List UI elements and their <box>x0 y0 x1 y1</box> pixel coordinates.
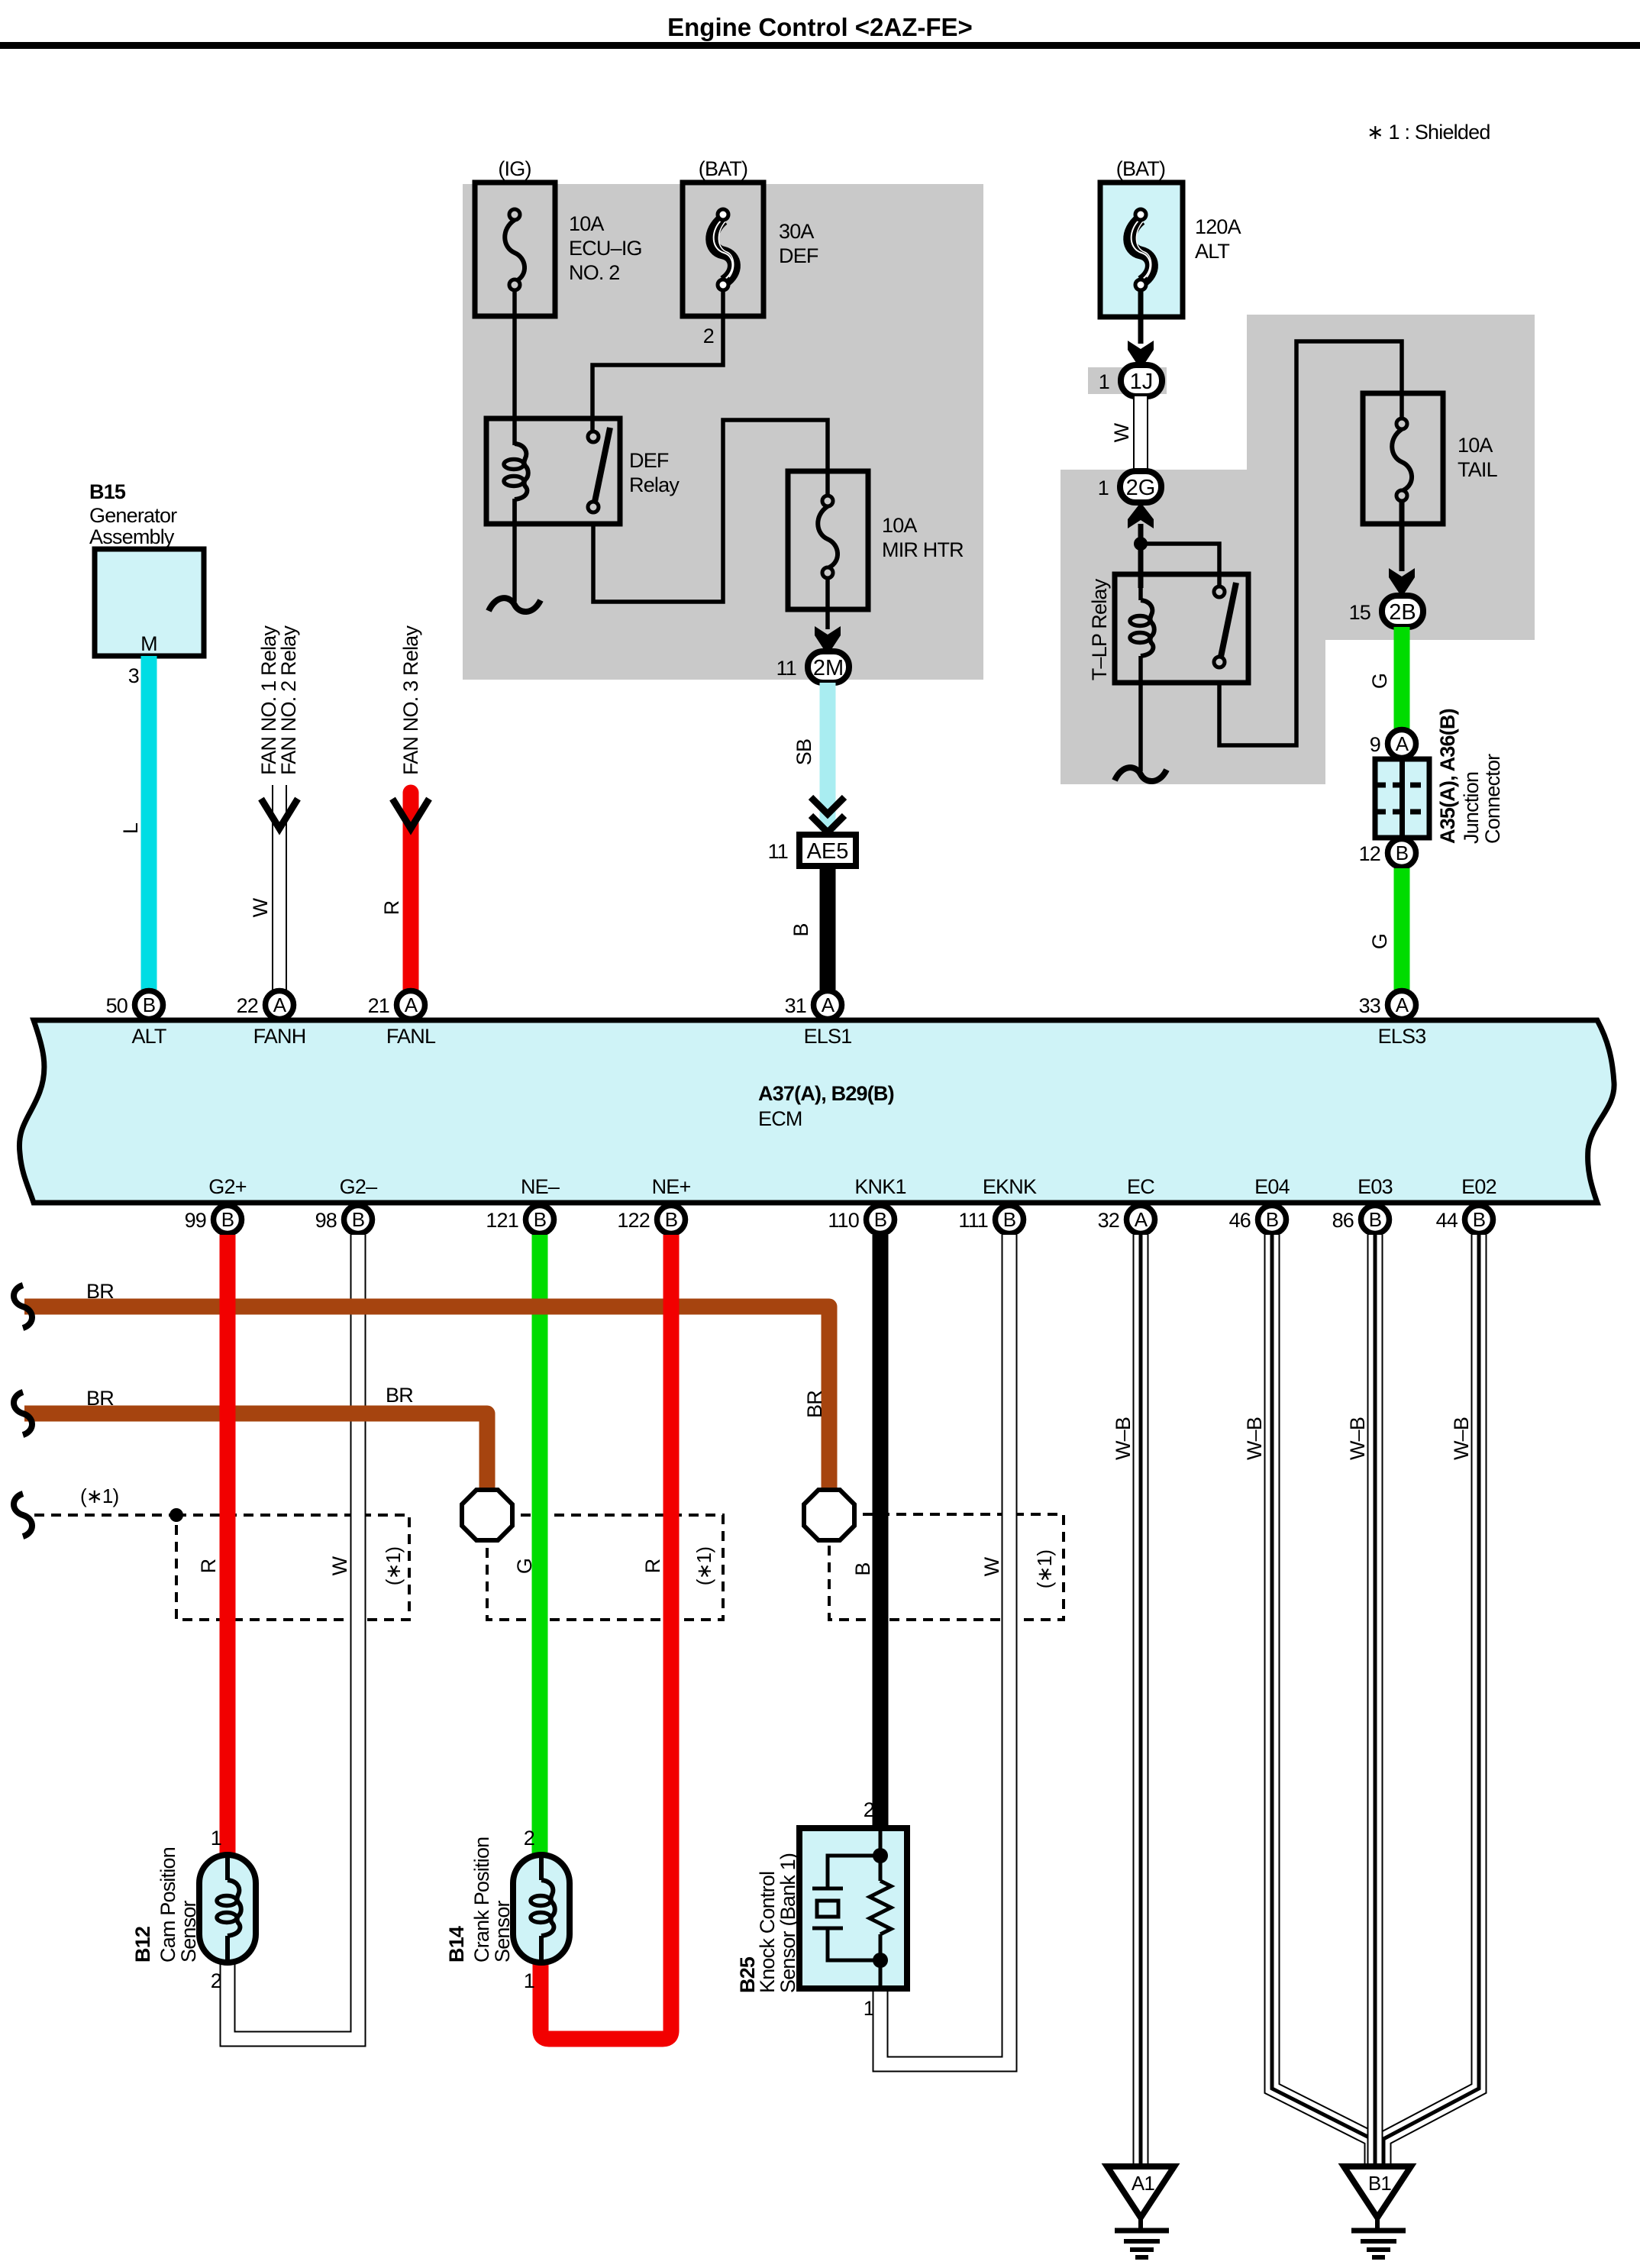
ECM pin 121 B <box>526 1206 554 1234</box>
svg-text:33: 33 <box>1359 994 1380 1017</box>
svg-text:B: B <box>789 923 812 936</box>
wire W-B from E04 to ground B1 <box>1272 1235 1372 2166</box>
svg-text:E04: E04 <box>1254 1175 1290 1198</box>
svg-text:A: A <box>273 993 287 1016</box>
fuse ECU-IG NO.2 element <box>505 209 525 290</box>
svg-text:B: B <box>1473 1208 1486 1231</box>
svg-text:B: B <box>665 1208 678 1231</box>
svg-text:W–B: W–B <box>1450 1417 1473 1460</box>
svg-text:EKNK: EKNK <box>983 1175 1037 1198</box>
svg-text:Assembly: Assembly <box>89 525 175 548</box>
svg-text:A: A <box>822 993 835 1016</box>
wire TAIL fuse down <box>1399 501 1405 571</box>
cam position sensor B12 body <box>199 1855 256 1963</box>
svg-text:B: B <box>851 1562 874 1575</box>
arrow into 2B <box>1389 568 1415 597</box>
svg-text:31: 31 <box>785 994 806 1017</box>
ECM pin 22 A <box>266 991 294 1019</box>
svg-text:1J: 1J <box>1130 370 1154 394</box>
svg-text:111: 111 <box>958 1209 988 1232</box>
ground A1 <box>1107 2166 1174 2257</box>
B15 Generator Assembly box <box>95 549 204 656</box>
svg-text:KNK1: KNK1 <box>854 1175 906 1198</box>
svg-text:121: 121 <box>486 1209 518 1232</box>
wire DEF relay switch to MIR HTR fuse <box>593 420 828 602</box>
wire DEF fuse to DEF relay switch <box>592 290 723 437</box>
wire KNK1 black to knock sensor <box>873 1235 889 1828</box>
wire BR shield drain (cam/crank pair) <box>24 1413 487 1490</box>
svg-text:SB: SB <box>793 739 815 765</box>
connector 2M <box>808 651 849 683</box>
svg-text:1: 1 <box>211 1827 221 1850</box>
svg-text:B: B <box>143 993 156 1016</box>
svg-text:A: A <box>1396 993 1409 1016</box>
svg-text:Junction: Junction <box>1460 772 1483 844</box>
svg-text:B: B <box>1369 1208 1382 1231</box>
ECM pin 21 A <box>397 991 425 1019</box>
svg-text:(IG): (IG) <box>498 157 531 180</box>
ECM pin 99 B <box>214 1206 242 1234</box>
svg-text:B: B <box>1003 1208 1016 1231</box>
fuse MIR HTR element <box>818 496 838 578</box>
ECM band A37(A) B29(B) <box>19 1020 1614 1203</box>
wire B from AE5 to ECM pin 31 <box>820 866 836 990</box>
svg-text:2: 2 <box>864 1798 874 1821</box>
title rule <box>0 42 1640 49</box>
wire IG fuse to DEF relay coil <box>512 290 517 445</box>
ground squiggle below DEF relay <box>489 598 541 612</box>
svg-text:W: W <box>328 1556 351 1575</box>
svg-text:T–LP Relay: T–LP Relay <box>1088 578 1111 680</box>
wire W to FANH <box>272 785 287 990</box>
svg-text:E02: E02 <box>1461 1175 1496 1198</box>
svg-text:∗ 1 : Shielded: ∗ 1 : Shielded <box>1367 121 1490 144</box>
wire W from 1J to 2G <box>1133 396 1148 471</box>
svg-text:(∗1): (∗1) <box>382 1547 405 1586</box>
svg-text:BR: BR <box>803 1391 826 1418</box>
svg-text:B: B <box>221 1208 234 1231</box>
pin 12 B of junction connector <box>1388 839 1416 867</box>
svg-text:NE+: NE+ <box>652 1175 691 1198</box>
svg-text:R: R <box>380 900 403 915</box>
ECM pin 44 B <box>1465 1206 1493 1234</box>
wire T-LP switch to TAIL fuse <box>1219 341 1402 745</box>
svg-text:21: 21 <box>368 994 389 1017</box>
svg-text:B14: B14 <box>445 1926 468 1963</box>
svg-text:A1: A1 <box>1132 2172 1155 2195</box>
wire MIR HTR fuse to 2M <box>825 578 830 629</box>
gray panel (T-LP relay / TAIL fuse block) <box>1061 315 1535 784</box>
ECM pin 50 B <box>135 991 163 1019</box>
connector 2B <box>1382 596 1423 627</box>
svg-text:Crank Position: Crank Position <box>470 1837 493 1963</box>
DEF relay coil <box>504 444 528 524</box>
crank position sensor B14 body <box>513 1855 570 1963</box>
svg-text:FAN NO. 2 Relay: FAN NO. 2 Relay <box>277 625 300 775</box>
svg-text:44: 44 <box>1436 1209 1458 1232</box>
svg-text:W–B: W–B <box>1243 1417 1266 1460</box>
shield dashed box cam sensor <box>176 1515 409 1620</box>
svg-text:A: A <box>1135 1208 1148 1231</box>
svg-text:98: 98 <box>315 1209 337 1232</box>
wire G2- white loop to cam sensor <box>228 1235 358 2039</box>
knock sensor internal circuit <box>812 1828 891 1989</box>
wire DEF relay coil to ground squiggle <box>512 499 517 602</box>
svg-text:BR: BR <box>86 1280 114 1303</box>
ground squiggle below T-LP relay <box>1115 767 1167 781</box>
ECM pin 111 B <box>996 1206 1024 1234</box>
svg-text:2B: 2B <box>1389 600 1416 625</box>
svg-text:A: A <box>1396 732 1409 755</box>
svg-text:1: 1 <box>864 1997 874 2020</box>
svg-text:W–B: W–B <box>1112 1417 1135 1460</box>
ECM pin 32 A <box>1127 1206 1155 1234</box>
svg-text:ELS1: ELS1 <box>804 1025 852 1048</box>
svg-text:B: B <box>1266 1208 1279 1231</box>
svg-text:Knock Control: Knock Control <box>756 1872 779 1993</box>
svg-text:G: G <box>1368 674 1391 689</box>
svg-text:50: 50 <box>106 994 128 1017</box>
svg-text:FAN NO. 3 Relay: FAN NO. 3 Relay <box>399 625 422 775</box>
svg-text:Sensor (Bank 1): Sensor (Bank 1) <box>776 1853 799 1993</box>
fuse MIR HTR box <box>788 471 868 609</box>
svg-text:Generator: Generator <box>89 504 177 527</box>
svg-text:86: 86 <box>1332 1209 1354 1232</box>
wire SB from 2M to AE5 <box>820 683 836 831</box>
svg-text:15: 15 <box>1349 601 1370 624</box>
svg-text:BR: BR <box>386 1384 413 1407</box>
svg-text:1: 1 <box>524 1969 534 1992</box>
shield octagon (knock) <box>804 1490 854 1540</box>
connector 1J <box>1121 365 1162 396</box>
gray panel (DEF relay / fuse block) <box>463 184 983 680</box>
shield dashed box knock sensor <box>829 1514 1064 1620</box>
svg-text:12: 12 <box>1359 842 1380 865</box>
wire W-B from E03 to ground B1 <box>1367 1235 1383 2166</box>
svg-text:46: 46 <box>1229 1209 1251 1232</box>
fuse TAIL element <box>1392 418 1412 501</box>
arrow up out of 2G <box>1128 502 1154 528</box>
svg-text:122: 122 <box>617 1209 650 1232</box>
svg-text:1: 1 <box>1098 477 1109 499</box>
svg-text:Cam Position: Cam Position <box>157 1847 179 1963</box>
svg-text:11: 11 <box>776 657 796 680</box>
T-LP relay coil <box>1130 600 1154 656</box>
svg-text:10A: 10A <box>569 212 604 235</box>
svg-text:(∗1): (∗1) <box>1033 1550 1056 1589</box>
chevron arrow on FANH wire <box>261 799 298 829</box>
svg-text:99: 99 <box>185 1209 206 1232</box>
wire junction to T-LP switch <box>1141 544 1219 592</box>
svg-text:AE5: AE5 <box>807 839 849 864</box>
svg-text:10A: 10A <box>1458 434 1493 457</box>
svg-text:2M: 2M <box>813 656 844 680</box>
T-LP relay box <box>1115 574 1248 683</box>
junction connector A35/A36 box <box>1375 759 1429 838</box>
svg-text:B12: B12 <box>131 1927 154 1963</box>
svg-text:30A: 30A <box>779 220 814 243</box>
svg-text:R: R <box>197 1559 220 1573</box>
svg-text:3: 3 <box>128 664 139 687</box>
wire EKNK white loop to knock sensor <box>880 1235 1009 2064</box>
svg-text:W: W <box>249 897 272 917</box>
cam sensor pickup coil <box>217 1857 241 1960</box>
svg-text:22: 22 <box>237 994 258 1017</box>
svg-text:W: W <box>980 1556 1003 1576</box>
shield dashed line (*1) <box>34 1514 176 1517</box>
wire ALT fuse down <box>1138 290 1144 344</box>
svg-text:W–B: W–B <box>1346 1417 1369 1460</box>
shield octagon (crank) <box>462 1490 512 1540</box>
svg-text:MIR HTR: MIR HTR <box>882 538 964 561</box>
knock control sensor B25 body <box>799 1828 907 1989</box>
svg-text:W: W <box>1110 422 1133 442</box>
svg-text:E03: E03 <box>1358 1175 1393 1198</box>
svg-text:G2–: G2– <box>340 1175 377 1198</box>
svg-text:Connector: Connector <box>1481 754 1504 844</box>
connector AE5 <box>799 835 856 866</box>
svg-text:TAIL: TAIL <box>1458 458 1498 481</box>
wire 2G to T-LP relay coil <box>1138 524 1144 588</box>
svg-text:110: 110 <box>828 1209 859 1232</box>
ECM pin 31 A <box>814 991 842 1019</box>
svg-text:G2+: G2+ <box>208 1175 246 1198</box>
DEF relay switch <box>588 428 610 512</box>
svg-text:ELS3: ELS3 <box>1378 1025 1426 1048</box>
svg-text:2: 2 <box>524 1827 534 1850</box>
svg-text:B: B <box>874 1208 887 1231</box>
svg-text:(BAT): (BAT) <box>699 157 748 180</box>
squiggle break on BR second wire <box>14 1392 32 1435</box>
svg-text:(∗1): (∗1) <box>80 1485 119 1507</box>
wire W-B from E02 to ground B1 <box>1383 1235 1479 2166</box>
svg-text:ECM: ECM <box>758 1107 802 1130</box>
wire R to FANL <box>403 793 419 990</box>
chevron arrow on FANL wire <box>392 799 429 829</box>
wire NE- green to crank sensor <box>532 1235 548 1855</box>
arrow into 1J <box>1128 341 1154 370</box>
junction dot <box>1134 537 1148 551</box>
svg-text:ALT: ALT <box>1195 240 1229 263</box>
svg-text:B: B <box>352 1208 365 1231</box>
svg-text:FANH: FANH <box>253 1025 306 1048</box>
svg-text:NO. 2: NO. 2 <box>569 261 620 284</box>
wire G from 2B to junction connector <box>1394 627 1410 729</box>
svg-text:R: R <box>641 1559 664 1573</box>
fuse ALT 120A box <box>1100 183 1183 317</box>
svg-text:(BAT): (BAT) <box>1116 157 1166 180</box>
svg-text:DEF: DEF <box>779 244 818 267</box>
wire L from generator to ECM pin 50 <box>141 656 157 990</box>
svg-text:G: G <box>1368 934 1391 949</box>
fuse DEF element (30A thick) <box>712 209 734 290</box>
wire G from junction connector to ECM pin 33 <box>1394 868 1410 990</box>
svg-text:B1: B1 <box>1368 2172 1392 2195</box>
ECM pin 122 B <box>657 1206 686 1234</box>
svg-text:ECU–IG: ECU–IG <box>569 237 642 260</box>
wire G2+ red to cam sensor <box>220 1235 236 1855</box>
svg-text:BR: BR <box>86 1387 114 1410</box>
svg-text:10A: 10A <box>882 514 917 537</box>
ECM pin 110 B <box>867 1206 895 1234</box>
ECM pin 86 B <box>1361 1206 1390 1234</box>
svg-text:32: 32 <box>1098 1209 1119 1232</box>
svg-text:2G: 2G <box>1126 476 1156 500</box>
svg-text:9: 9 <box>1370 733 1380 756</box>
wire T-LP coil to ground squiggle <box>1138 683 1143 771</box>
ECM pin 46 B <box>1258 1206 1286 1234</box>
svg-text:1: 1 <box>1099 370 1109 393</box>
pin 9 A of junction connector <box>1388 730 1416 758</box>
squiggle break on BR top wire <box>14 1285 32 1328</box>
svg-text:B15: B15 <box>89 480 126 503</box>
T-LP relay switch <box>1214 583 1236 667</box>
ECM pin 98 B <box>344 1206 373 1234</box>
ground B1 <box>1344 2166 1411 2257</box>
svg-text:DEF: DEF <box>629 449 669 472</box>
svg-text:2: 2 <box>211 1969 221 1992</box>
svg-text:M: M <box>140 632 157 655</box>
svg-text:Engine Control <2AZ-FE>: Engine Control <2AZ-FE> <box>667 13 973 41</box>
arrow into 2M <box>815 626 841 655</box>
crank sensor pickup coil <box>531 1857 555 1960</box>
DEF relay box <box>486 418 620 524</box>
double chevron arrow into AE5 <box>811 797 844 832</box>
svg-text:L: L <box>119 822 142 834</box>
junction dot on shield line <box>169 1508 183 1522</box>
ECM pin 33 A <box>1388 991 1416 1019</box>
svg-text:2: 2 <box>703 325 714 347</box>
svg-text:A37(A), B29(B): A37(A), B29(B) <box>758 1082 894 1105</box>
svg-text:B: B <box>534 1208 547 1231</box>
svg-text:Relay: Relay <box>629 473 680 496</box>
svg-text:EC: EC <box>1127 1175 1154 1198</box>
wire W-B from EC to ground A1 <box>1133 1235 1149 2166</box>
svg-text:120A: 120A <box>1195 215 1241 238</box>
connector 2G <box>1120 471 1161 502</box>
squiggle break on shield line <box>14 1494 32 1536</box>
gray band behind 1J connector <box>1088 367 1167 394</box>
svg-text:FANL: FANL <box>386 1025 436 1048</box>
svg-text:(∗1): (∗1) <box>692 1547 715 1586</box>
svg-text:11: 11 <box>768 840 788 863</box>
svg-text:B: B <box>1396 842 1409 864</box>
svg-text:A: A <box>405 993 418 1016</box>
wire NE+ red loop to crank sensor <box>541 1235 671 2039</box>
wire BR shield drain (knock) <box>24 1307 829 1490</box>
T-LP relay coil stubs <box>1138 588 1143 683</box>
shield dashed box crank sensor <box>487 1515 723 1620</box>
fuse ALT element (120A thick) <box>1130 209 1152 290</box>
svg-text:A35(A), A36(B): A35(A), A36(B) <box>1436 709 1459 844</box>
fuse DEF box <box>683 183 764 316</box>
fuse ECU-IG NO.2 box <box>475 183 555 316</box>
svg-text:NE–: NE– <box>521 1175 560 1198</box>
fuse TAIL box <box>1363 393 1443 524</box>
svg-text:ALT: ALT <box>131 1025 166 1048</box>
